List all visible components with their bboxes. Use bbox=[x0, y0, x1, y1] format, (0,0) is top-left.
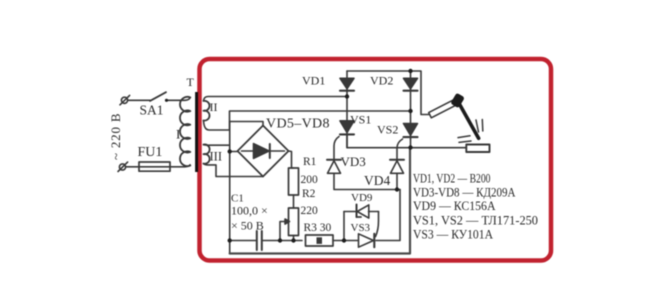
workpiece bbox=[466, 145, 489, 153]
wire switch to primary bbox=[166, 98, 190, 101]
switch SA1 blade bbox=[150, 92, 166, 101]
svg-text:SA1: SA1 bbox=[140, 103, 164, 118]
svg-text:VD9: VD9 bbox=[351, 192, 373, 204]
svg-text:200: 200 bbox=[301, 174, 319, 186]
svg-text:100,0 ×: 100,0 × bbox=[231, 204, 268, 218]
svg-text:× 50 В: × 50 В bbox=[231, 219, 264, 233]
R2 wiper tap bbox=[280, 222, 286, 241]
electrode bbox=[458, 102, 479, 139]
terminal top bbox=[121, 97, 127, 103]
VS2 cathode to rail bbox=[410, 139, 412, 148]
resistor R2 bbox=[289, 208, 299, 236]
VD2-VS2 column bbox=[410, 71, 412, 139]
wire III top lead bbox=[204, 144, 230, 147]
transformer secondary III bbox=[204, 144, 210, 163]
VD1-VS1 column bbox=[346, 71, 348, 136]
wire VD3/VD4 bottoms bbox=[334, 173, 400, 189]
zener VD9 bbox=[356, 205, 358, 218]
svg-text:VS1: VS1 bbox=[350, 113, 371, 127]
red highlight box bbox=[200, 59, 552, 261]
wire terminal to switch bbox=[128, 99, 150, 101]
VD9 branch bbox=[344, 211, 355, 213]
top rail VD1-VD2 bbox=[347, 70, 411, 72]
bottom return rail bbox=[230, 148, 410, 254]
svg-text:VS3 — КУ101А: VS3 — КУ101А bbox=[413, 227, 494, 242]
thyristor VS3 bbox=[359, 234, 374, 247]
svg-text:VD1: VD1 bbox=[302, 74, 325, 88]
transformer primary winding I bbox=[180, 97, 190, 166]
wire II bottom jog to VD2-VS2 junction bbox=[204, 111, 411, 130]
diode VD1 bbox=[340, 78, 354, 89]
VS2 gate to VD4 bbox=[397, 139, 403, 159]
wire III bottom lead to bridge bottom corner bbox=[204, 164, 264, 177]
svg-text:T: T bbox=[187, 75, 195, 89]
thyristor VS2 bbox=[404, 124, 418, 136]
wire R3 to VS3 loop bbox=[333, 240, 358, 242]
sparks bbox=[476, 120, 479, 132]
wire C1 row bbox=[230, 240, 256, 242]
svg-text:III: III bbox=[210, 150, 223, 164]
resistor R3 bbox=[306, 235, 334, 246]
svg-text:R3 30: R3 30 bbox=[304, 222, 332, 234]
terminal bottom bbox=[119, 164, 125, 170]
svg-text:I: I bbox=[176, 127, 180, 142]
svg-text:R2: R2 bbox=[302, 188, 316, 200]
bridge rectifier VD5-VD8 diamond bbox=[238, 126, 289, 177]
stub to bridge left corner bbox=[230, 151, 238, 153]
svg-text:VD9 — КС156А: VD9 — КС156А bbox=[413, 198, 496, 213]
VS1 cathode to rail bbox=[346, 136, 348, 148]
svg-text:R1: R1 bbox=[303, 156, 317, 168]
svg-text:VS1, VS2 — ТЛ171-250: VS1, VS2 — ТЛ171-250 bbox=[413, 213, 538, 228]
diode VD2 bbox=[404, 78, 418, 89]
electrode holder rod bbox=[429, 99, 458, 118]
bridge inner diode bbox=[242, 150, 285, 152]
wire VS3 to corner bbox=[376, 190, 400, 241]
svg-text:FU1: FU1 bbox=[138, 145, 163, 160]
wire terminal to fuse to primary bbox=[126, 165, 190, 167]
wire II top to VD1-VS1 junction bbox=[204, 97, 348, 101]
wire to bridge top corner bbox=[230, 122, 263, 126]
svg-text:220: 220 bbox=[301, 205, 319, 217]
cathode rail to workpiece bbox=[347, 136, 466, 148]
svg-text:VD4: VD4 bbox=[364, 173, 390, 188]
wire bridge right corner to R1 bbox=[289, 151, 294, 168]
svg-text:VD3: VD3 bbox=[341, 154, 366, 169]
parts list bbox=[413, 171, 538, 242]
svg-text:~ 220 В: ~ 220 В bbox=[108, 113, 123, 160]
transformer core bbox=[195, 92, 198, 172]
junction dots bbox=[165, 69, 413, 243]
link R1-R2 bbox=[293, 195, 295, 208]
svg-text:VS3: VS3 bbox=[351, 222, 371, 234]
diode VD4 bbox=[390, 159, 404, 161]
diode VD3 bbox=[327, 159, 341, 161]
R2 bottom lead bbox=[293, 236, 295, 241]
VS3 loop left side bbox=[343, 212, 345, 241]
node vertical left of bridge bbox=[229, 122, 231, 254]
labels bbox=[108, 74, 398, 235]
svg-text:VD5–VD8: VD5–VD8 bbox=[266, 117, 330, 132]
fuse FU1 bbox=[139, 162, 170, 171]
capacitor C1 bbox=[256, 231, 258, 250]
svg-text:VS2: VS2 bbox=[377, 123, 398, 137]
electrode feed wire bbox=[411, 71, 430, 115]
svg-text:VD1, VD2 — В200: VD1, VD2 — В200 bbox=[413, 171, 491, 186]
holder grip bbox=[450, 93, 465, 109]
VS1 gate to VD3 bbox=[334, 137, 339, 159]
transformer secondary II bbox=[204, 101, 210, 121]
resistor R1 bbox=[289, 168, 299, 195]
svg-text:II: II bbox=[210, 100, 218, 114]
svg-text:VD2: VD2 bbox=[370, 74, 393, 88]
VS3 gate bbox=[376, 212, 379, 237]
thyristor VS1 bbox=[340, 121, 354, 133]
